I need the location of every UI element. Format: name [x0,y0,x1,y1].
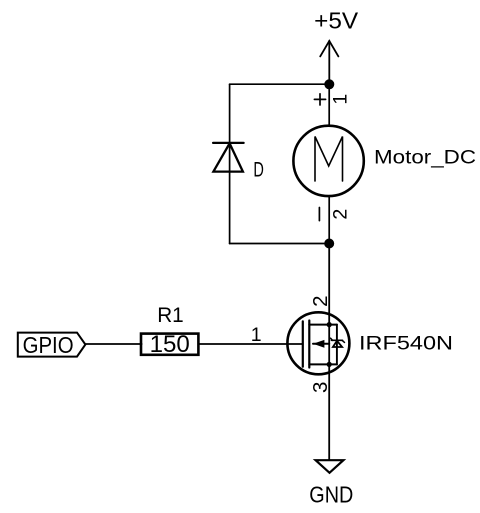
motor minus polarity mark [318,208,320,221]
power symbol +5V arrow [320,41,338,84]
svg-text:GPIO: GPIO [23,332,74,358]
global label GPIO flag [18,333,86,357]
svg-text:D: D [253,159,264,182]
motor plus polarity mark [314,94,325,105]
svg-text:2: 2 [309,295,332,306]
svg-text:+5V: +5V [314,8,359,34]
motor pin 1 wire [328,84,330,124]
wire top horizontal [230,83,330,85]
transistor Q1 IRF540N [287,312,349,374]
motor pin 2 wire [328,197,330,243]
junction dot bottom [324,239,334,249]
wire bottom horizontal [230,243,330,245]
svg-text:R1: R1 [157,303,184,327]
ground symbol [316,460,344,473]
wire diode branch vertical [229,84,231,243]
junction dot top [324,79,334,89]
diode D [213,143,244,172]
svg-text:GND: GND [309,482,353,508]
svg-text:Motor_DC: Motor_DC [374,148,476,169]
wire drain vertical [328,244,330,460]
resistor R1 body [141,334,198,355]
wire gate horizontal [199,343,303,345]
svg-text:3: 3 [309,382,332,393]
svg-text:150: 150 [150,331,190,358]
svg-text:2: 2 [329,209,351,220]
svg-text:1: 1 [251,324,262,346]
svg-text:IRF540N: IRF540N [359,333,453,355]
svg-text:1: 1 [329,94,351,105]
wire gpio to resistor [85,343,141,345]
motor M1 body [293,126,363,196]
